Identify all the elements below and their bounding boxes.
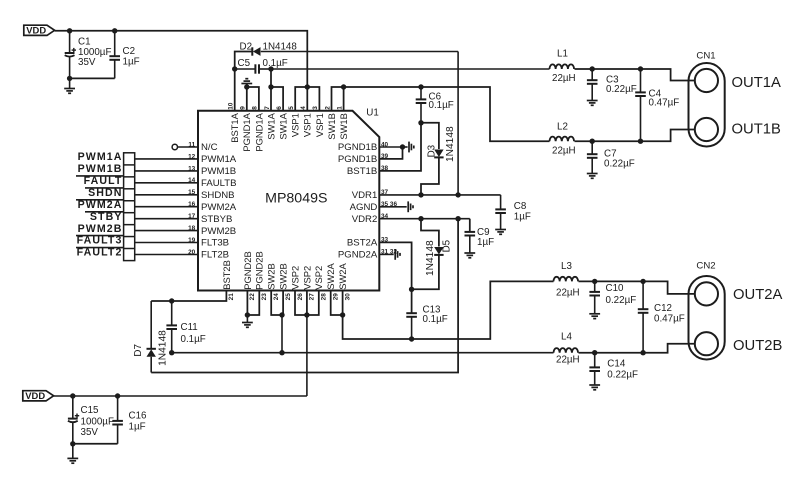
net input label FAULT3: [76, 235, 123, 247]
capacitor C9 1uF: [465, 219, 495, 253]
wire SW2A rail to L3: [343, 281, 554, 339]
pin 23 PGND2B (bottom): [254, 251, 268, 300]
svg-text:STBY: STBY: [90, 211, 123, 223]
node VSP2 bus junction: [304, 312, 309, 317]
svg-text:OUT1A: OUT1A: [732, 75, 781, 91]
svg-text:SW1B: SW1B: [326, 113, 337, 140]
svg-text:0.47µF: 0.47µF: [654, 313, 685, 324]
svg-text:18: 18: [188, 225, 196, 232]
node SW1A bus junction: [268, 84, 273, 89]
wire SW2B bus (pins 24,25): [271, 291, 283, 316]
wire VDD top rail: [55, 31, 308, 87]
svg-text:7: 7: [264, 106, 271, 110]
capacitor C10 0.22uF: [589, 281, 636, 313]
pin 33 BST2A (right) label: [347, 237, 389, 249]
svg-text:34: 34: [381, 213, 389, 220]
wire D2 drop to VDR1: [457, 52, 459, 196]
svg-text:1: 1: [336, 106, 343, 110]
pin 4 VSP1 (top): [300, 106, 313, 137]
svg-text:1N4148: 1N4148: [263, 41, 298, 52]
svg-text:C14: C14: [607, 358, 626, 369]
capacitor C12 0.47uF: [638, 281, 685, 352]
svg-text:BST2A: BST2A: [347, 238, 378, 249]
svg-text:BST2B: BST2B: [221, 260, 232, 290]
node VSP1-VDD junction: [305, 84, 310, 89]
svg-text:FLT2B: FLT2B: [201, 250, 229, 261]
node PGND1A bus junction: [244, 84, 249, 89]
svg-text:35V: 35V: [78, 57, 96, 68]
svg-text:30: 30: [344, 293, 351, 301]
pin 8 PGND1A (top): [252, 106, 265, 152]
svg-text:BST1B: BST1B: [347, 166, 377, 177]
net OUT1A: [732, 75, 781, 91]
svg-text:VDD: VDD: [26, 25, 46, 36]
node BST1B/D3 junction: [418, 120, 423, 125]
pin BST2A wire: [379, 242, 411, 339]
pin 34 VDR2 (right) label: [352, 213, 389, 225]
svg-text:1µF: 1µF: [123, 56, 140, 67]
pin 22 PGND2B (bottom): [242, 251, 256, 300]
svg-text:35V: 35V: [81, 427, 99, 438]
svg-text:SW2A: SW2A: [325, 262, 336, 289]
svg-text:1µF: 1µF: [477, 237, 494, 248]
input terminal boxes: [124, 153, 135, 261]
svg-text:19: 19: [188, 237, 196, 244]
pin 13 PWM1B (left): [135, 165, 236, 177]
wire PGND2B bus (pins 22,23): [247, 291, 259, 316]
svg-text:L2: L2: [557, 122, 568, 133]
svg-text:9: 9: [240, 106, 247, 110]
pin 21 BST2B (bottom): [221, 260, 235, 300]
wire L1 to CN1: [575, 69, 695, 81]
node PGND2B junction: [245, 312, 250, 317]
wire C1-C2 bottom loop: [70, 77, 115, 79]
pin 30 SW2A (bottom): [337, 262, 351, 300]
svg-text:VDD: VDD: [25, 390, 45, 401]
wire VSP1 bus (pins 3,4,5): [295, 87, 319, 111]
pin 11 N/C (left): [188, 141, 217, 153]
node SW1A rail junction: [268, 66, 273, 71]
pin 27 VSP2 (bottom): [301, 266, 315, 300]
pin 24 SW2B (bottom): [266, 263, 280, 300]
svg-text:38: 38: [381, 165, 389, 172]
pin 31 32 PGND2A (right) label: [338, 249, 398, 261]
inductor L3 22uH: [554, 261, 580, 299]
node C4 bottom junction: [638, 139, 643, 144]
node C1 bottom junction: [67, 76, 72, 81]
net input label STBY: [85, 211, 123, 223]
svg-text:22µH: 22µH: [556, 287, 580, 298]
svg-text:3: 3: [312, 106, 319, 110]
svg-text:C11: C11: [181, 322, 198, 333]
node SW2B bus junction: [279, 312, 284, 317]
node C6 top junction: [418, 84, 423, 89]
ground above PGND1A: [241, 79, 252, 87]
svg-text:0.22µF: 0.22µF: [606, 84, 637, 95]
svg-text:CN1: CN1: [696, 51, 715, 62]
capacitor C13 0.1uF: [406, 304, 447, 325]
svg-text:11: 11: [188, 141, 195, 148]
svg-text:10: 10: [228, 102, 235, 110]
capacitor C7 0.22uF: [587, 141, 635, 173]
capacitor C4 0.47uF: [635, 69, 679, 141]
svg-text:27: 27: [309, 293, 316, 301]
pin 39 PGND1B (right) label: [338, 153, 389, 165]
node C10 junction: [592, 279, 597, 284]
pin 29 SW2A (bottom): [325, 262, 339, 300]
svg-text:SHDN: SHDN: [88, 187, 122, 199]
svg-text:VSP2: VSP2: [301, 266, 312, 290]
svg-text:CN2: CN2: [696, 260, 715, 271]
wire SW1B rail to L2: [344, 87, 550, 141]
node C3 junction: [590, 66, 595, 71]
svg-text:1N4148: 1N4148: [158, 330, 169, 366]
node C12 bottom junction: [640, 350, 645, 355]
svg-text:SW1B: SW1B: [338, 113, 349, 140]
svg-text:25: 25: [285, 293, 292, 301]
svg-text:31 32: 31 32: [381, 249, 397, 256]
svg-text:FAULT3: FAULT3: [77, 235, 123, 247]
svg-text:L4: L4: [561, 331, 572, 342]
svg-text:FAULT: FAULT: [84, 175, 123, 187]
svg-text:C10: C10: [606, 283, 625, 294]
svg-text:SW1A: SW1A: [265, 112, 276, 139]
svg-text:OUT1B: OUT1B: [732, 122, 781, 138]
ground below C3: [587, 101, 598, 106]
svg-text:OUT2A: OUT2A: [733, 287, 782, 303]
svg-text:0.22µF: 0.22µF: [606, 295, 637, 306]
svg-text:SHDNB: SHDNB: [201, 190, 235, 201]
svg-text:SW2B: SW2B: [266, 263, 277, 290]
net input label FAULT: [76, 175, 123, 187]
svg-text:22µH: 22µH: [556, 355, 580, 366]
svg-text:5: 5: [288, 106, 295, 110]
svg-text:D7: D7: [133, 344, 144, 357]
node SW2A-C13 junction: [409, 336, 414, 341]
pin 18 PWM2B (left): [135, 225, 236, 237]
svg-text:4: 4: [300, 106, 307, 110]
pin 3 VSP1 (top): [312, 106, 325, 137]
svg-text:PWM2A: PWM2A: [78, 199, 123, 211]
wire VDD bottom rail: [54, 395, 307, 397]
pin 38 BST1B (right) label: [347, 165, 389, 177]
svg-text:PGND1A: PGND1A: [253, 112, 264, 151]
svg-text:20: 20: [188, 249, 196, 256]
ground below C7: [587, 174, 598, 179]
node VDD-C2 junction: [112, 28, 117, 33]
svg-text:OUT2B: OUT2B: [733, 338, 782, 354]
svg-text:1µF: 1µF: [129, 421, 146, 432]
svg-text:D3: D3: [427, 144, 438, 157]
wire D7 return to VDR2: [151, 219, 458, 373]
svg-text:D5: D5: [442, 239, 453, 252]
pin PGND1B 39 wire: [379, 147, 402, 159]
pin 35 36 AGND (right) label: [350, 201, 398, 213]
wire BST1A riser: [235, 52, 253, 111]
node BST1A-C5 junction: [232, 66, 237, 71]
svg-text:VDR2: VDR2: [352, 214, 378, 225]
inductor L4 22uH: [554, 331, 580, 365]
svg-text:14: 14: [188, 177, 196, 184]
svg-text:BST1A: BST1A: [229, 112, 240, 142]
svg-text:17: 17: [188, 213, 196, 220]
node C15 bottom junction: [70, 441, 75, 446]
pin 15 SHDNB (left): [135, 189, 235, 201]
svg-text:1N4148: 1N4148: [425, 240, 436, 276]
svg-text:PGND1B: PGND1B: [338, 142, 377, 153]
svg-text:D2: D2: [240, 41, 253, 52]
wire VSP2 bus (pins 26,27,28): [295, 291, 319, 316]
wire L3 to CN2: [579, 281, 695, 294]
svg-text:0.1µF: 0.1µF: [429, 100, 454, 111]
wire L4 to CN2: [579, 344, 695, 353]
svg-text:SW2A: SW2A: [337, 262, 348, 289]
node C14 junction: [592, 350, 597, 355]
net input label PWM2A: [76, 199, 123, 211]
ground below C9: [464, 253, 475, 258]
node SW1B bus junction: [341, 84, 346, 89]
node C11 bottom junction: [169, 350, 174, 355]
svg-text:0.1µF: 0.1µF: [263, 58, 288, 69]
capacitor C2 1uF: [109, 31, 139, 79]
connector CN1: [689, 51, 725, 147]
svg-text:PWM1B: PWM1B: [78, 163, 123, 175]
pin 12 PWM1A (left): [135, 153, 237, 165]
svg-text:L1: L1: [557, 49, 568, 60]
wire VDR2 rail: [379, 218, 470, 220]
ground below C1: [64, 78, 75, 93]
ground below C10: [589, 314, 600, 319]
pin 9 PGND1A (top): [240, 106, 253, 152]
node SW2B rail junction: [279, 350, 284, 355]
node VDR2-D5 junction: [418, 216, 423, 221]
wire VSP2 riser to VDD: [306, 315, 308, 396]
diode D5 1N4148: [412, 219, 453, 290]
svg-text:AGND: AGND: [350, 202, 378, 213]
svg-text:33: 33: [381, 237, 389, 244]
svg-text:35 36: 35 36: [381, 201, 397, 208]
svg-text:VSP1: VSP1: [290, 113, 301, 137]
diode D7 1N4148: [133, 301, 168, 373]
op-amp U1 MP8049S chip outline: [198, 107, 379, 290]
capacitor C11 0.1uF: [166, 301, 205, 353]
pin 28 VSP2 (bottom): [313, 266, 327, 300]
svg-text:PGND1B: PGND1B: [338, 154, 377, 165]
svg-text:1N4148: 1N4148: [445, 126, 456, 162]
capacitor C8 1uF: [495, 195, 531, 229]
wire SW1B bus (pins 1,2): [332, 87, 344, 111]
svg-text:VSP2: VSP2: [313, 266, 324, 290]
inductor L2 22uH: [550, 122, 576, 157]
svg-text:0.22µF: 0.22µF: [607, 369, 638, 380]
inductor L1 22uH: [550, 49, 576, 84]
node VDR1-D3 junction: [418, 192, 423, 197]
node C12 top junction: [640, 279, 645, 284]
net input label FAULT2: [76, 247, 123, 259]
wire SW2A bus (pins 29,30): [331, 291, 343, 316]
svg-text:PWM2B: PWM2B: [78, 223, 123, 235]
wire C15-C16 bottom loop: [73, 443, 118, 445]
svg-text:26: 26: [297, 293, 304, 301]
node VDD-C15 junction: [70, 393, 75, 398]
pin 7 SW1A (top): [264, 106, 277, 140]
svg-text:40: 40: [381, 141, 389, 148]
pin 5 VSP1 (top): [288, 106, 301, 137]
power flag VDD (bottom): [23, 390, 54, 401]
power flag VDD (top): [24, 25, 55, 36]
svg-text:39: 39: [381, 153, 389, 160]
svg-text:VDR1: VDR1: [352, 190, 378, 201]
svg-text:15: 15: [188, 189, 196, 196]
pin PGND1B 40 wire + ground: [379, 142, 414, 153]
svg-text:24: 24: [273, 293, 280, 301]
pin 19 FLT3B (left): [135, 237, 229, 249]
svg-text:U1: U1: [366, 107, 379, 118]
svg-text:28: 28: [321, 293, 328, 301]
pin 37 VDR1 (right) label: [352, 189, 389, 201]
svg-text:0.47µF: 0.47µF: [649, 98, 680, 109]
svg-text:PGND2A: PGND2A: [338, 250, 378, 261]
svg-text:PGND2B: PGND2B: [242, 251, 253, 290]
pin 16 PWM2A (left): [135, 201, 237, 213]
ground below PGND2B: [242, 315, 253, 327]
wire rail SW1A to L1: [271, 68, 550, 70]
capacitor C16 1uF: [112, 396, 147, 444]
svg-text:C5: C5: [238, 58, 251, 69]
pin PGND2A wire + ground: [379, 249, 400, 260]
svg-text:FAULTB: FAULTB: [201, 178, 237, 189]
svg-text:SW1A: SW1A: [278, 112, 289, 139]
node VDD-C1 junction: [67, 28, 72, 33]
svg-text:FLT3B: FLT3B: [201, 238, 229, 249]
pin 1 SW1B (top): [336, 106, 349, 140]
node BST2A-D5 junction: [409, 287, 414, 292]
capacitor C5 0.1uF: [235, 58, 288, 74]
svg-text:PGND1A: PGND1A: [241, 112, 252, 151]
net input label PWM1A: [78, 151, 123, 163]
svg-text:0.22µF: 0.22µF: [604, 158, 635, 169]
svg-text:22µH: 22µH: [552, 145, 576, 156]
svg-text:PGND2B: PGND2B: [254, 251, 265, 290]
svg-text:PWM2B: PWM2B: [201, 226, 236, 237]
net OUT2A: [733, 287, 782, 303]
svg-text:1µF: 1µF: [514, 211, 531, 222]
ground below C8: [495, 230, 506, 235]
svg-text:N/C: N/C: [201, 142, 218, 153]
node VDD-C16 junction: [115, 393, 120, 398]
svg-text:VSP1: VSP1: [314, 113, 325, 137]
wire BST1B to C6: [379, 123, 421, 171]
svg-text:PWM1B: PWM1B: [201, 166, 236, 177]
svg-text:6: 6: [276, 106, 283, 110]
svg-text:SW2B: SW2B: [278, 263, 289, 290]
svg-text:0.1µF: 0.1µF: [181, 334, 206, 345]
net input label SHDN: [85, 187, 123, 199]
node C7 junction: [590, 139, 595, 144]
node C4 top junction: [638, 66, 643, 71]
svg-text:C2: C2: [123, 46, 136, 57]
svg-text:C16: C16: [129, 410, 148, 421]
pin 6 SW1A (top): [276, 106, 289, 140]
svg-text:STBYB: STBYB: [201, 214, 232, 225]
net OUT2B: [733, 338, 782, 354]
ground below C15: [67, 444, 78, 463]
svg-text:VSP1: VSP1: [302, 113, 313, 137]
net input label PWM1B: [78, 163, 123, 175]
svg-text:8: 8: [252, 106, 259, 110]
diode D3 1N4148: [421, 123, 456, 196]
capacitor C14 0.22uF: [589, 353, 638, 385]
diode D2 1N4148: [240, 41, 459, 56]
pin 40 PGND1B (right) label: [338, 141, 389, 153]
svg-text:21: 21: [228, 293, 235, 301]
wire L2 to CN1: [575, 130, 695, 142]
pin 10 BST1A (top): [228, 102, 241, 143]
svg-text:PWM1A: PWM1A: [201, 154, 237, 165]
svg-text:0.1µF: 0.1µF: [423, 314, 448, 325]
node VDR2-D7 junction: [455, 216, 460, 221]
pin 11 N/C open circle: [172, 144, 198, 149]
net input label PWM2B: [78, 223, 123, 235]
connector CN2: [689, 260, 725, 359]
wire SW2B riser: [281, 315, 283, 353]
pin BST2B wire (pin 21): [151, 291, 226, 302]
svg-text:C1: C1: [78, 36, 91, 47]
svg-text:23: 23: [261, 293, 268, 301]
svg-text:C15: C15: [81, 405, 100, 416]
capacitor C15 1000uF 35V (polarized): [68, 396, 114, 444]
svg-text:L3: L3: [561, 261, 572, 272]
svg-text:22µH: 22µH: [552, 73, 576, 84]
svg-text:MP8049S: MP8049S: [265, 191, 327, 207]
node C11 top junction: [169, 298, 174, 303]
capacitor C1 1000uF 35V (polarized): [65, 31, 112, 79]
node VDR1-D2 junction: [455, 192, 460, 197]
pin 20 FLT2B (left): [135, 249, 229, 261]
pin 2 SW1B (top): [324, 106, 337, 140]
svg-text:13: 13: [188, 165, 196, 172]
wire PGND1A bus (pins 8,9): [247, 87, 259, 111]
svg-text:2: 2: [324, 106, 331, 110]
wire VDR1 rail: [379, 194, 500, 196]
capacitor C6 0.1uF: [416, 87, 454, 123]
svg-text:FAULT2: FAULT2: [77, 247, 123, 259]
svg-text:PWM1A: PWM1A: [78, 151, 123, 163]
node SW2A bus junction: [340, 312, 345, 317]
net OUT1B: [732, 122, 781, 138]
pin 14 FAULTB (left): [135, 177, 237, 189]
wire SW1A bus (pins 6,7): [271, 69, 283, 111]
svg-text:PWM2A: PWM2A: [201, 202, 237, 213]
pin 26 VSP2 (bottom): [289, 266, 303, 300]
svg-text:16: 16: [188, 201, 196, 208]
pin AGND wire + ground: [379, 201, 413, 212]
svg-text:12: 12: [188, 153, 196, 160]
svg-text:29: 29: [333, 293, 340, 301]
pin 25 SW2B (bottom): [278, 263, 292, 300]
capacitor C3 0.22uF: [587, 69, 637, 100]
svg-text:37: 37: [381, 189, 389, 196]
svg-text:22: 22: [249, 293, 256, 301]
svg-text:1000µF: 1000µF: [81, 416, 114, 427]
wire SW2B rail to L4: [172, 352, 554, 354]
svg-text:VSP2: VSP2: [289, 266, 300, 290]
pin 17 STBYB (left): [135, 213, 233, 225]
ground below C14: [589, 385, 600, 390]
